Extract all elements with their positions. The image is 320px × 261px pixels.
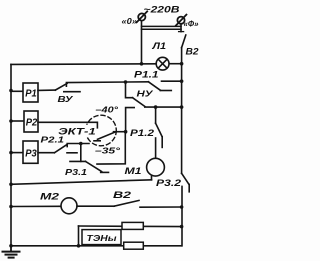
riser down to P3.1 row: [97, 132, 125, 164]
right bus upper: [181, 48, 183, 174]
node left bus P1 row: [9, 89, 13, 93]
node left bus P3 row: [9, 151, 13, 155]
right bus lower: [181, 186, 183, 245]
contact P1.1 foot: [160, 90, 171, 92]
svg-text:М1: М1: [125, 166, 142, 176]
contact P3.2 blade: [182, 173, 189, 184]
NU riser from VU wire: [126, 82, 133, 98]
svg-text:Р1.2: Р1.2: [130, 128, 155, 139]
node VU wire / NU riser: [124, 80, 128, 84]
contact NU blade: [133, 98, 145, 107]
svg-text:В2: В2: [186, 47, 199, 57]
wire thermometer out: [114, 131, 126, 133]
svg-text:НУ: НУ: [137, 89, 155, 99]
contact P1.2 blade: [156, 123, 162, 136]
wire VU to P1.1 with hook: [66, 82, 148, 86]
P3.1 overbar: [70, 160, 86, 162]
wire M1 row to left bus: [11, 180, 152, 185]
node NU row / right bus: [180, 105, 184, 109]
svg-text:М2: М2: [40, 192, 60, 203]
contact P3.2 foot: [188, 184, 190, 191]
wire lamp row: [11, 63, 182, 66]
contact P1.1 blade: [148, 82, 160, 90]
svg-text:«Ф»: «Ф»: [184, 19, 199, 29]
svg-text:«0»: «0»: [122, 16, 138, 26]
contact P2.1 blade: [54, 145, 66, 153]
svg-text:–40°: –40°: [96, 105, 119, 115]
wire B2 to bus: [140, 206, 182, 208]
relay coil P2: [24, 111, 38, 132]
relay coil P1: [23, 83, 38, 102]
node at 0-drop / lamp row: [140, 62, 144, 66]
bottom bus: [11, 245, 182, 247]
wire from terminal Ф down: [180, 24, 182, 32]
double cord line: [142, 26, 182, 29]
left bus: [10, 64, 12, 245]
wire M1 bottom stub: [151, 175, 153, 179]
svg-text:ТЭНы: ТЭНы: [87, 233, 118, 243]
switch B2 top: [179, 32, 186, 48]
node left bus P2 row: [9, 119, 13, 123]
wire P1.2 to M1: [155, 138, 157, 158]
contact B2 blade: [114, 200, 139, 206]
wire P1.1 to bus: [162, 80, 182, 82]
wire P3 to P2.1: [38, 152, 54, 154]
box EKT-1: [57, 125, 97, 137]
wire to M2: [11, 205, 61, 207]
svg-text:Р2: Р2: [26, 118, 38, 129]
thermometer needle: [98, 132, 115, 139]
relay coil P3: [23, 141, 38, 163]
contact VU fixed bar: [64, 91, 80, 93]
node B2 row / right bus: [180, 205, 184, 209]
thermometer dial dashed: [86, 115, 117, 146]
heater riser: [78, 226, 80, 246]
heater element 2: [124, 242, 144, 249]
node thermometer / riser: [124, 130, 128, 134]
contact P2.1 foot: [67, 152, 77, 154]
svg-text:ВУ: ВУ: [58, 94, 75, 104]
svg-text:В2: В2: [113, 190, 131, 200]
motor M1: [125, 158, 165, 176]
contact P3.1 foot: [101, 171, 109, 173]
wire heater top row: [79, 225, 182, 228]
wire P2 to thermometer: [38, 122, 97, 128]
svg-text:Р3.1: Р3.1: [65, 167, 87, 177]
wire P1 to VU: [38, 89, 55, 91]
node NU row / M1 branch: [154, 105, 158, 109]
thermometer fixed foot: [94, 140, 100, 142]
svg-text:Р1.1: Р1.1: [134, 70, 159, 80]
wire M2 to B2: [77, 205, 114, 207]
motor M2: [61, 198, 77, 214]
svg-text:–35°: –35°: [95, 146, 121, 156]
svg-text:Р3: Р3: [25, 149, 37, 160]
node left bus M2 row: [9, 205, 13, 209]
node left bus M1 row: [9, 183, 13, 187]
contact P3.1 blade: [86, 161, 102, 171]
node bottom left corner: [9, 244, 13, 248]
wire from terminal 0 down: [141, 21, 143, 64]
svg-text:Р3.2: Р3.2: [156, 178, 182, 189]
node bottom bus / heater riser: [77, 244, 81, 248]
box TENy label: [82, 230, 121, 245]
contact NU foot segment: [126, 108, 135, 132]
riser P3.1: [80, 144, 82, 162]
wire M1 branch down: [155, 107, 157, 123]
contact VU blade: [55, 84, 67, 91]
node P1.1 / right bus: [180, 79, 184, 83]
svg-text:Р2.1: Р2.1: [41, 135, 65, 145]
svg-text:Р1: Р1: [25, 88, 37, 99]
node lamp row / right bus: [180, 62, 184, 66]
lamp L1: [156, 57, 169, 70]
wire NU row to bus: [145, 106, 182, 108]
svg-text:~220В: ~220В: [144, 5, 180, 16]
wire P2.1 out with hook: [67, 144, 89, 147]
terminal «Ф»: [176, 15, 187, 26]
terminal «0»: [137, 11, 148, 22]
node P2.1 out / P3.1 riser: [79, 142, 83, 146]
contact P1.2 foot: [161, 137, 163, 148]
svg-text:Л1: Л1: [151, 41, 166, 51]
ground: [3, 246, 20, 258]
heater element 1: [122, 222, 143, 229]
node heater row / right bus: [180, 225, 184, 229]
wire to relay P2: [11, 120, 24, 122]
wire to relay P3: [11, 152, 23, 154]
wire to relay P1: [11, 90, 23, 92]
